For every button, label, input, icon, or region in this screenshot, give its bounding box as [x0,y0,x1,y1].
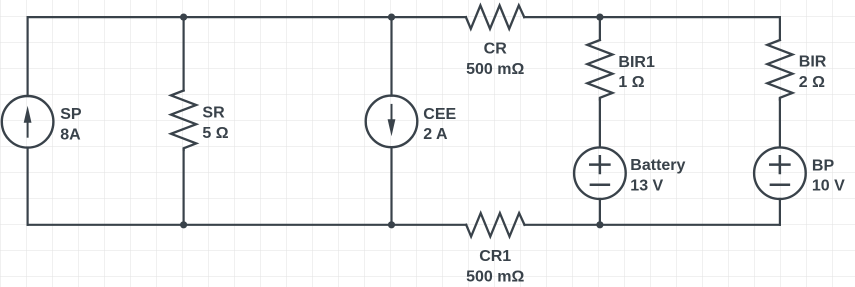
svg-text:1 Ω: 1 Ω [618,74,644,91]
svg-text:CR: CR [484,41,508,58]
svg-text:13 V: 13 V [630,178,663,195]
svg-text:2 A: 2 A [423,126,448,143]
svg-text:BP: BP [812,157,835,174]
svg-text:BIR1: BIR1 [618,54,655,71]
svg-text:Battery: Battery [630,157,685,174]
svg-text:10 V: 10 V [812,178,845,195]
svg-text:5 Ω: 5 Ω [202,125,228,142]
svg-text:500 mΩ: 500 mΩ [466,268,524,285]
svg-text:8A: 8A [60,126,81,143]
svg-text:SP: SP [60,106,82,123]
svg-text:SR: SR [202,105,225,122]
svg-text:CR1: CR1 [479,248,511,265]
svg-text:BIR: BIR [799,54,827,71]
svg-text:CEE: CEE [423,106,456,123]
svg-text:500 mΩ: 500 mΩ [466,61,524,78]
svg-text:2 Ω: 2 Ω [799,74,825,91]
